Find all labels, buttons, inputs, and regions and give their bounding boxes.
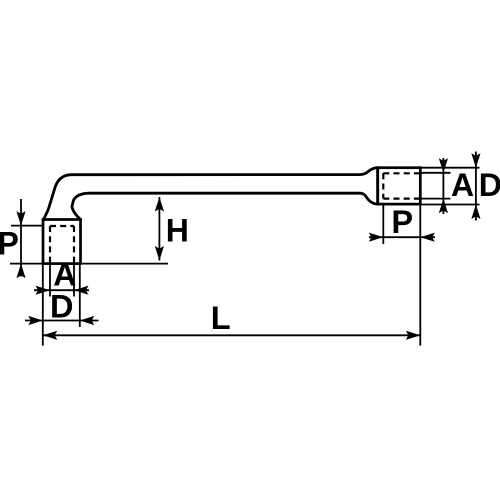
- dimension line D left: [25, 320, 99, 322]
- dimension line A right: [442, 158, 444, 214]
- dimension arrow H: [158, 197, 160, 261]
- right socket body: [378, 168, 421, 204]
- dimension line D right: [475, 152, 477, 221]
- extension line P-right left: [382, 204, 384, 244]
- arrowhead D-right bottom: [471, 205, 480, 220]
- right socket hidden hole dashed lines: [383, 173, 419, 198]
- extension line D-left outer left going down to L: [42, 264, 44, 346]
- arrowhead A-right top: [439, 158, 448, 173]
- dimension line P right: [369, 236, 435, 238]
- arrowhead D-left right: [80, 316, 95, 325]
- extension line A-left inner right: [73, 264, 75, 297]
- arrowhead H top: [155, 197, 164, 212]
- arrowhead L left: [43, 331, 58, 340]
- left socket body: [43, 220, 81, 264]
- arrowhead P-left bottom: [16, 264, 25, 279]
- svg-text:L: L: [211, 300, 231, 336]
- dimension line A left: [34, 289, 89, 291]
- extension line D-right bottom: [420, 204, 479, 206]
- arrowhead P-right right: [420, 233, 435, 242]
- arrowhead H bottom: [155, 246, 164, 261]
- arrowhead L right: [406, 331, 421, 340]
- left socket hidden hole dashed lines: [50, 226, 74, 264]
- svg-text:A: A: [53, 256, 76, 292]
- svg-text:H: H: [166, 213, 189, 249]
- arrowhead D-left left: [28, 316, 43, 325]
- extension line P-left top: [11, 225, 43, 227]
- arrowhead A-left left: [36, 286, 51, 295]
- extension line A-right bottom: [420, 198, 450, 200]
- extension line bottom face left (H and P reference): [10, 263, 168, 265]
- arrowhead P-right left: [369, 233, 384, 242]
- handle outline: [44, 168, 378, 220]
- svg-text:D: D: [50, 289, 73, 325]
- extension line D-right top: [420, 167, 479, 169]
- arrowhead D-right top: [471, 153, 480, 168]
- extension line L right: [419, 204, 421, 346]
- arrowhead P-left top: [16, 211, 25, 226]
- dimension line L: [43, 334, 421, 336]
- svg-text:A: A: [451, 167, 474, 203]
- svg-text:D: D: [479, 167, 500, 203]
- svg-text:P: P: [391, 204, 413, 240]
- arrowhead A-right bottom: [439, 199, 448, 214]
- extension line A-right top: [420, 172, 450, 174]
- svg-text:P: P: [0, 226, 19, 262]
- extension line A-left inner left: [49, 264, 51, 297]
- extension line D-left outer right: [79, 264, 81, 327]
- arrowhead A-left right: [74, 286, 89, 295]
- dimension line P left: [20, 199, 22, 277]
